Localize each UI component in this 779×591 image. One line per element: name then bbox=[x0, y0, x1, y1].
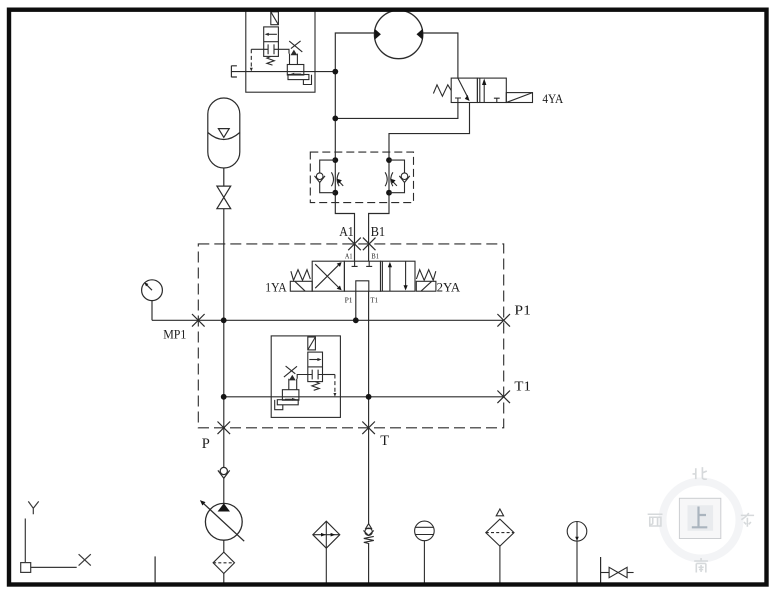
wire T1 gallery bbox=[224, 396, 504, 398]
compass watermark bbox=[648, 467, 754, 572]
wire check valve to pump bbox=[223, 478, 225, 503]
return spring bbox=[433, 85, 451, 96]
air filter breather bbox=[486, 509, 514, 583]
wire backpressure valve to tank bbox=[368, 544, 370, 583]
suction filter bbox=[213, 552, 234, 573]
wire P riser accumulator to pump bbox=[223, 209, 225, 468]
right position up arrow bbox=[483, 84, 485, 103]
solenoid box 4YA bbox=[506, 93, 532, 103]
svg-text:A1: A1 bbox=[339, 225, 354, 240]
left throttle bbox=[331, 172, 339, 186]
wire 4YA out port to B-side block bbox=[369, 103, 470, 262]
manifold dashed boundary bbox=[198, 244, 503, 428]
directional valve 1YA/2YA bbox=[290, 261, 436, 291]
svg-text:1YA: 1YA bbox=[265, 280, 287, 295]
crossed arrows left square bbox=[315, 265, 338, 288]
accumulator A1 bbox=[208, 98, 240, 209]
port B1 bbox=[363, 238, 376, 251]
wire motor left to vertical bus, down to A-side block bbox=[335, 33, 374, 261]
spring left bbox=[291, 270, 310, 281]
left position diagonal with arrowhead bbox=[458, 78, 467, 96]
hydraulic motor M1 bbox=[374, 10, 423, 58]
tank wall left bbox=[154, 556, 156, 583]
right throttle bbox=[385, 172, 393, 186]
wire P1 gallery bbox=[152, 319, 504, 321]
tank wall right bbox=[600, 557, 602, 583]
svg-text:2YA: 2YA bbox=[437, 280, 461, 295]
wire P1 stub of directional valve bbox=[355, 291, 357, 320]
port P1 bbox=[497, 314, 510, 327]
blocked port T symbols bbox=[455, 98, 500, 103]
svg-text:T1: T1 bbox=[514, 380, 531, 395]
svg-text:A1: A1 bbox=[345, 251, 353, 260]
wire motor right down to 4YA pilot bbox=[423, 33, 458, 78]
svg-text:P: P bbox=[202, 436, 210, 452]
pilot assembly U6 (inside manifold) bbox=[271, 336, 340, 418]
dual throttle-check block bbox=[310, 152, 413, 203]
centre square blocked A1 B1 bbox=[352, 261, 373, 266]
svg-text:4YA: 4YA bbox=[542, 91, 563, 106]
drain shutoff valve bbox=[601, 567, 634, 577]
glyph shang (up) bbox=[692, 507, 708, 528]
solenoid 1YA box bbox=[290, 281, 312, 291]
wire gauge stem bbox=[151, 301, 153, 321]
solenoid 2YA box bbox=[416, 281, 436, 291]
centre square P1-T1 channel bbox=[356, 281, 369, 291]
dashed enclosure bbox=[310, 152, 413, 203]
junction dots bbox=[221, 69, 392, 400]
plugged port bracket at left of U5 bbox=[231, 66, 237, 78]
wire T return riser bbox=[368, 291, 370, 524]
breather gauge circle bbox=[415, 521, 435, 583]
pilot assembly U5 (top left) bbox=[246, 11, 315, 93]
spring right bbox=[416, 270, 435, 281]
variable displacement pump P bbox=[200, 500, 244, 541]
pressure gauge MP1 bbox=[142, 280, 163, 301]
left bypass branch with check valve bbox=[320, 160, 336, 173]
port T bbox=[362, 422, 375, 435]
port A1 bbox=[348, 238, 361, 251]
small port labels on valve bbox=[345, 251, 380, 304]
glyph west bbox=[648, 514, 663, 526]
shutoff valve bbox=[217, 186, 231, 197]
svg-text:P1: P1 bbox=[345, 295, 353, 304]
glyph south bbox=[694, 558, 708, 573]
Y axis bbox=[24, 519, 26, 563]
backpressure check valve on T line bbox=[363, 524, 373, 544]
UCS icon bbox=[21, 501, 91, 572]
svg-text:B1: B1 bbox=[371, 251, 379, 260]
line accumulator to shutoff valve bbox=[223, 168, 225, 186]
thermometer level indicator bbox=[567, 522, 587, 584]
wire suction filter to tank bbox=[223, 574, 225, 584]
glyph east bbox=[741, 513, 754, 527]
right bypass branch with check valve bbox=[389, 160, 405, 173]
port P bbox=[218, 422, 231, 435]
wire U5 line to node N1 bbox=[231, 71, 335, 73]
svg-text:T1: T1 bbox=[370, 295, 378, 304]
svg-text:B1: B1 bbox=[371, 225, 386, 240]
svg-text:P1: P1 bbox=[514, 303, 531, 318]
wire 4YA blocked port to node N2 bbox=[335, 103, 458, 119]
X axis bbox=[31, 566, 77, 568]
return filter bbox=[313, 521, 340, 583]
svg-text:MP1: MP1 bbox=[163, 326, 186, 341]
svg-text:T: T bbox=[380, 433, 389, 449]
port MP1 bbox=[192, 314, 205, 327]
solenoid valve 4YA bbox=[433, 78, 532, 102]
check valve on pump line bbox=[218, 467, 230, 478]
port X markers bbox=[192, 238, 510, 435]
right square parallel arrows bbox=[389, 266, 391, 291]
glyph north bbox=[693, 467, 707, 479]
port T1 bbox=[497, 391, 510, 404]
wire pump suction bbox=[223, 540, 225, 552]
